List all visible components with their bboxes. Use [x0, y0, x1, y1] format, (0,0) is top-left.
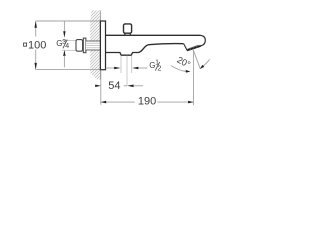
- spout top line: [106, 34, 200, 36]
- G1/2 outlet thread lines: [120, 56, 122, 73]
- spout right end corner and end face: [200, 35, 206, 46]
- aerator face (thick): [187, 46, 201, 51]
- wall hatch: [84, 0, 104, 107]
- svg-text:20°: 20°: [175, 55, 192, 70]
- svg-text:100: 100: [28, 40, 46, 52]
- square symbol of □100: [24, 43, 27, 46]
- arrowhead up (100 dim): [35, 20, 37, 27]
- aerator inner line: [188, 45, 199, 49]
- thread lines: [86, 42, 100, 44]
- extension line thread top: [62, 40, 76, 42]
- extension line thread bottom: [62, 49, 76, 51]
- spout bottom edge with outlet notch and rise: [106, 44, 184, 56]
- label G3/4: [56, 39, 69, 50]
- 20 deg arc right branch: [200, 59, 210, 68]
- svg-text:190: 190: [138, 95, 156, 107]
- G1/2 dim left arrow: [106, 67, 115, 69]
- dim 190 line: [101, 101, 135, 103]
- arrowhead down to thread top: [63, 31, 65, 38]
- 20 deg angled ray: [193, 50, 200, 69]
- svg-text:4: 4: [65, 43, 69, 50]
- 20 deg arc left branch: [171, 66, 187, 72]
- G3/4 union nut: [76, 40, 83, 52]
- knob neck: [125, 33, 130, 35]
- G3/4 flange disc: [83, 38, 86, 53]
- extension line top (plate top, for 100 dim): [36, 20, 100, 22]
- outlet wedge left edge: [184, 44, 187, 51]
- G1/2 outlet centerline: [126, 56, 128, 86]
- G1/2 dim right arrow: [132, 67, 138, 70]
- extension line bottom (plate bottom, for 100 dim): [36, 69, 100, 71]
- G3/4 threaded pipe: [86, 41, 100, 50]
- 20 deg vertical ray + 190 right extension: [193, 50, 195, 106]
- wall face line: [99, 11, 101, 80]
- wall face extension line down: [100, 71, 102, 105]
- dim 54 left outside arrow: [96, 85, 101, 87]
- label G1/2: [149, 60, 161, 73]
- aerator knurl ticks: [190, 46, 198, 50]
- knob (diverter): [124, 24, 132, 33]
- G3/4 dimension arrows: [63, 21, 65, 33]
- arrowhead up to thread bottom: [63, 50, 65, 57]
- dimension 100 vertical line: [35, 26, 37, 37]
- arrowhead left (190): [101, 101, 106, 104]
- svg-text:54: 54: [108, 80, 120, 92]
- arc arrowhead left: [186, 70, 191, 73]
- arc arrowhead right: [200, 65, 204, 69]
- arrowhead down (100 dim): [35, 63, 37, 70]
- svg-text:2: 2: [158, 66, 162, 73]
- wall plate (escutcheon): [100, 21, 105, 70]
- arrowhead right (190): [188, 101, 193, 104]
- dim 54 line piece + right arrow: [124, 85, 128, 87]
